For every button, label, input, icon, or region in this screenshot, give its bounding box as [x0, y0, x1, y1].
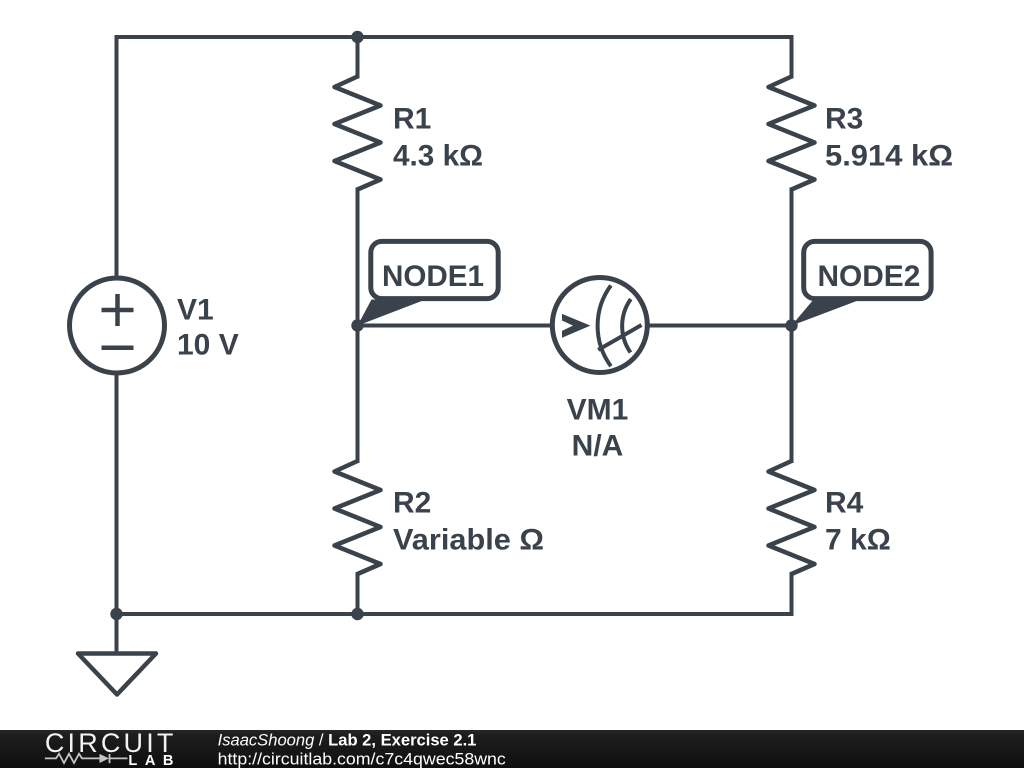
svg-text:5.914 kΩ: 5.914 kΩ	[825, 140, 953, 173]
wire top rail	[117, 37, 792, 277]
wire NODE1 to R2	[356, 326, 360, 462]
node NODE2 callout	[792, 241, 932, 325]
wire left rail bottom	[115, 374, 119, 614]
svg-text:V1: V1	[177, 294, 214, 327]
label R3 5.914 kOhm	[825, 103, 953, 173]
wire NODE1 to voltmeter	[358, 324, 553, 328]
voltage source V1	[70, 278, 165, 373]
junction dot top	[351, 31, 363, 43]
resistor R1	[335, 77, 381, 190]
voltmeter VM1	[552, 278, 647, 373]
svg-text:R4: R4	[825, 487, 864, 520]
wire R1 to NODE1	[356, 190, 360, 326]
resistor R4	[769, 461, 815, 574]
svg-text:http://circuitlab.com/c7c4qwec: http://circuitlab.com/c7c4qwec58wnc	[218, 750, 506, 768]
junction dot NODE2	[785, 319, 797, 331]
wire middle top stub	[356, 37, 360, 77]
wire voltmeter to NODE2	[648, 324, 792, 328]
resistor R3	[769, 77, 815, 190]
svg-text:4.3 kΩ: 4.3 kΩ	[393, 140, 483, 173]
label R2 Variable Ohm	[393, 487, 544, 557]
junction dot bottom left	[110, 608, 122, 620]
wire R3 top stub	[790, 37, 794, 77]
node NODE1 callout	[358, 241, 499, 325]
label VM1 N/A	[567, 394, 629, 463]
svg-text:LAB: LAB	[128, 753, 173, 768]
label V1 10 V	[177, 294, 239, 362]
svg-text:R2: R2	[393, 487, 431, 520]
svg-text:NODE1: NODE1	[382, 260, 484, 293]
resistor R2	[335, 461, 381, 574]
wire bottom rail	[117, 612, 792, 616]
svg-text:10 V: 10 V	[177, 329, 239, 362]
svg-text:N/A: N/A	[572, 430, 624, 463]
svg-text:7 kΩ: 7 kΩ	[825, 524, 891, 557]
wire NODE2 to R4	[790, 326, 794, 462]
junction dot NODE1	[351, 319, 363, 331]
label R1 4.3 kOhm	[393, 103, 483, 173]
ground	[78, 654, 156, 695]
logo resistor squiggle and diode	[45, 754, 128, 763]
wire ground stub	[115, 614, 119, 654]
wire R2 to bottom	[356, 574, 360, 614]
wire R4 bottom stub	[790, 574, 794, 614]
svg-text:NODE2: NODE2	[818, 260, 921, 293]
svg-text:R3: R3	[825, 103, 863, 136]
label R4 7 kOhm	[825, 487, 891, 557]
svg-text:Variable Ω: Variable Ω	[393, 524, 544, 557]
svg-text:IsaacShoong / Lab 2, Exercise: IsaacShoong / Lab 2, Exercise 2.1	[218, 731, 477, 749]
wire R3 to NODE2	[790, 190, 794, 326]
svg-text:R1: R1	[393, 103, 431, 136]
junction dot bottom middle	[351, 608, 363, 620]
svg-text:VM1: VM1	[567, 394, 629, 427]
